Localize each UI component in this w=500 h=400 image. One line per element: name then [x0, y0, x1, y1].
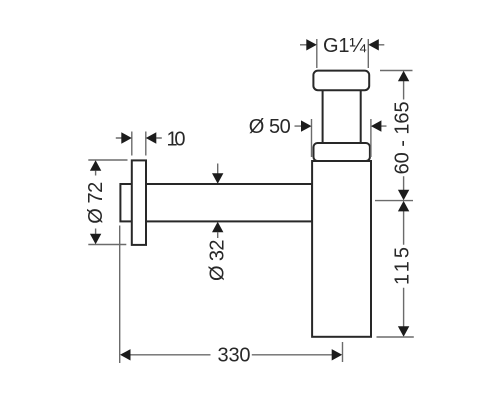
top cap nut — [313, 71, 369, 91]
dimension 115: bottom arrow — [398, 326, 409, 337]
dimension D72: extension lines — [88, 160, 127, 245]
dimension 10: left arrow — [121, 132, 132, 143]
dimension D72: bottom arrow — [90, 234, 101, 245]
svg-text:330: 330 — [218, 345, 251, 367]
riser pipe (vertical tube) — [323, 90, 361, 143]
dimension D50: extension lines — [312, 119, 371, 157]
dimension 10: extension lines — [132, 132, 146, 156]
svg-text:10: 10 — [167, 128, 186, 150]
dimension 330: line — [130, 354, 332, 356]
dimension 330: right arrow — [332, 349, 343, 360]
dimension 60-165: bottom arrow — [398, 190, 409, 201]
dimension D50: tails — [295, 125, 387, 127]
horizontal pipe (wall tube) — [120, 184, 312, 221]
dimension G1 1/4: tails — [300, 44, 384, 46]
dimension D32: bottom arrow — [212, 222, 223, 233]
dimension D50: right arrow — [371, 120, 382, 131]
dimension D32: bottom tail — [217, 232, 219, 238]
dimension 330: left arrow — [120, 349, 131, 360]
svg-text:Ø 50: Ø 50 — [249, 116, 291, 138]
dimension 60-165: line — [403, 81, 405, 190]
svg-text:Ø 72: Ø 72 — [85, 182, 107, 224]
dimension G1 1/4: left arrow — [306, 39, 317, 50]
dimension 10: tails — [116, 137, 162, 139]
dimension 330: extension lines — [120, 226, 343, 364]
dimension 60-165: top arrow — [398, 71, 409, 82]
dimension G1 1/4: right arrow — [368, 39, 379, 50]
wall flange — [132, 160, 146, 245]
svg-text:60 - 165: 60 - 165 — [392, 101, 414, 174]
svg-text:G1¼: G1¼ — [323, 35, 366, 57]
collar nut — [314, 143, 370, 161]
dimension D72: line — [95, 171, 97, 234]
dimension D50: left arrow — [301, 120, 312, 131]
dimension 115: line — [403, 211, 405, 327]
trap body — [312, 161, 371, 337]
dimension D72: top arrow — [90, 160, 101, 171]
dimension 60-165: extension lines — [375, 71, 413, 201]
svg-text:Ø 32: Ø 32 — [206, 239, 228, 281]
dimension 115: bottom extension line — [377, 336, 414, 338]
dimension D32: top arrow — [212, 173, 223, 184]
dimension 10: right arrow — [146, 132, 157, 143]
svg-text:115: 115 — [392, 247, 414, 285]
dimension 115: top arrow — [398, 201, 409, 212]
dimension D32: top tail — [217, 164, 219, 174]
dimension G1 1/4: extension lines — [317, 39, 369, 68]
